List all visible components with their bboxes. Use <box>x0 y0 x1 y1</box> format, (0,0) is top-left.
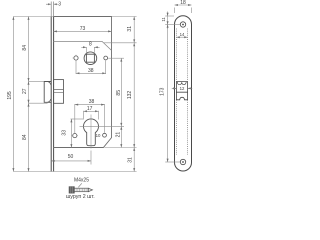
fixing hole bottom-right <box>103 133 107 137</box>
euro cylinder profile hole <box>84 119 99 146</box>
latch body inside case <box>54 80 64 104</box>
screw hole axis extension <box>165 24 180 26</box>
internal line extension y=42.8 <box>104 42 137 44</box>
dim 18 ext lines <box>175 8 192 14</box>
cylinder horizontal centerline <box>80 125 125 127</box>
svg-text:10: 10 <box>96 133 101 138</box>
faceplate thickness extension lines for dim 3 <box>51 2 53 17</box>
bottom screw hole center <box>182 161 184 163</box>
latch body bottom extension y=103.2 <box>29 102 48 104</box>
leader line <box>78 183 82 187</box>
deadbolt window in faceplate <box>176 92 187 100</box>
latch window in faceplate <box>176 82 187 93</box>
ext lines from holes down <box>76 60 106 74</box>
ext lines from bottom holes up <box>75 104 105 133</box>
svg-text:38: 38 <box>88 68 94 74</box>
dim 38 line <box>76 72 106 74</box>
fixing hole bottom-left <box>73 134 77 138</box>
dim 195 line <box>12 17 14 172</box>
ext lines from cylinder circle up <box>84 111 99 120</box>
svg-text:3: 3 <box>58 2 61 8</box>
svg-text:14: 14 <box>180 32 185 37</box>
plate top extension for 11 <box>165 15 174 17</box>
fixing hole top-left center ticks <box>73 55 77 58</box>
ext lines from square <box>86 47 94 54</box>
dim 14 line (between dashed) <box>176 36 187 38</box>
svg-text:17: 17 <box>87 106 93 112</box>
latch top extension y=81.4 <box>29 80 45 82</box>
dim 50 line <box>51 160 91 162</box>
latch head (protruding) <box>44 82 51 103</box>
follower square (8mm spindle) <box>86 54 94 62</box>
svg-text:27: 27 <box>22 88 28 94</box>
bottom screw hole axis extension <box>165 161 180 163</box>
fixing hole top-left <box>74 56 78 60</box>
cylinder axis extension below case <box>90 151 92 165</box>
faceplate outline rounded <box>175 16 192 171</box>
svg-text:84: 84 <box>22 45 28 51</box>
follower axis extension <box>108 57 124 59</box>
latch bevel curve <box>47 82 50 85</box>
chain dim line x=28.5 <box>28 17 30 172</box>
svg-text:173: 173 <box>160 87 166 96</box>
svg-text:33: 33 <box>62 130 68 136</box>
svg-text:31: 31 <box>127 26 133 32</box>
dim 12 arrows (latch window) <box>172 87 192 89</box>
cylinder top extension for 33 <box>71 118 84 120</box>
dim 3 arrows <box>46 3 58 5</box>
svg-text:132: 132 <box>127 91 133 100</box>
latch body internal lines <box>54 89 64 92</box>
dim 38 line (bottom) <box>75 104 105 106</box>
faceplate front edge (double vertical line) <box>51 17 53 172</box>
svg-text:11: 11 <box>161 17 166 22</box>
bottom reference extension line y=171.5 <box>13 171 136 173</box>
follower circle <box>84 52 97 65</box>
svg-text:195: 195 <box>7 91 13 100</box>
svg-text:шуруп 2 шт.: шуруп 2 шт. <box>66 194 95 200</box>
svg-text:21: 21 <box>115 132 121 138</box>
dim line x=121.3 <box>120 58 122 147</box>
svg-text:M4x25: M4x25 <box>74 178 89 184</box>
cylinder vertical centerline <box>90 115 92 149</box>
dim 73 line <box>54 30 112 32</box>
svg-text:84: 84 <box>22 134 28 140</box>
dim 33 line <box>70 119 72 148</box>
screw icon <box>69 187 92 193</box>
svg-text:31: 31 <box>128 157 134 163</box>
bottom screw hole <box>180 159 185 164</box>
case bottom edge already in outline; internal partition line <box>54 41 112 50</box>
dim 18 line <box>175 4 192 6</box>
svg-text:85: 85 <box>116 90 122 96</box>
svg-text:12: 12 <box>180 86 185 91</box>
svg-text:38: 38 <box>89 99 95 105</box>
top screw hole center <box>182 24 184 26</box>
svg-text:18: 18 <box>180 0 186 6</box>
latch window scallops <box>177 82 186 85</box>
top screw hole <box>180 22 185 27</box>
lock case outline <box>54 17 112 148</box>
dim line x=134.2 <box>133 17 135 172</box>
svg-text:50: 50 <box>68 154 74 160</box>
fixing hole top-right <box>104 56 108 60</box>
dim 11 + 173 chained line x=167.6 <box>167 12 169 163</box>
svg-text:8: 8 <box>89 42 92 48</box>
case bottom extension y=147.5 <box>105 147 137 149</box>
svg-text:73: 73 <box>80 26 86 32</box>
top reference extension line y=16.5 <box>13 16 53 18</box>
hidden case edges (dashed) <box>176 29 187 156</box>
dim 17 line <box>84 110 99 112</box>
fixing hole bottom-left ticks <box>72 135 78 137</box>
